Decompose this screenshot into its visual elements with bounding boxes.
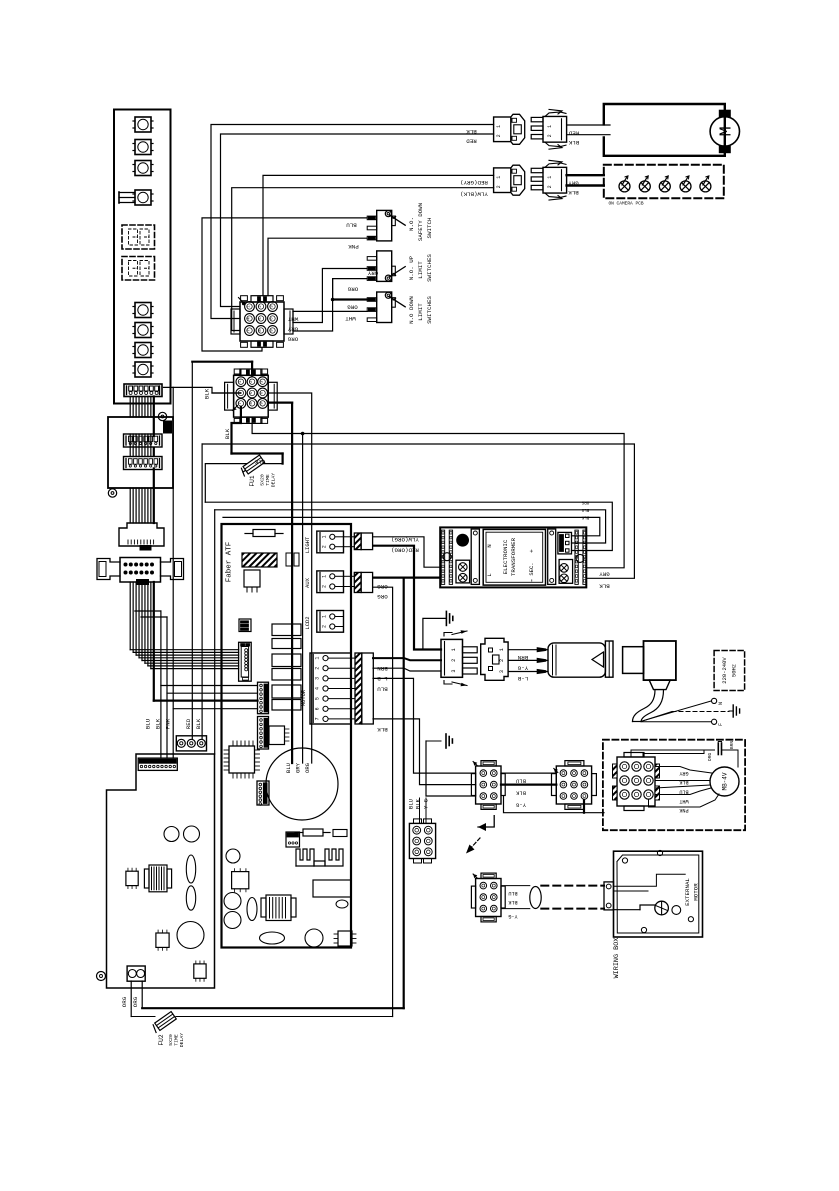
svg-text:WHT: WHT	[679, 798, 688, 804]
svg-text:BLK: BLK	[204, 388, 211, 399]
svg-text:2: 2	[451, 659, 457, 662]
svg-text:BLK: BLK	[155, 718, 162, 729]
svg-text:BLK: BLK	[414, 798, 421, 809]
svg-text:BLK: BLK	[466, 128, 477, 135]
svg-text:220-240V: 220-240V	[721, 657, 728, 684]
svg-text:L-B: L-B	[517, 675, 528, 682]
svg-text:7: 7	[248, 329, 252, 331]
svg-text:PNK: PNK	[678, 807, 688, 813]
svg-text:BRN: BRN	[517, 654, 528, 661]
svg-text:AUX: AUX	[304, 577, 311, 588]
svg-text:RED: RED	[568, 130, 579, 137]
svg-text:-: -	[528, 578, 537, 583]
svg-text:7: 7	[239, 402, 243, 404]
svg-text:FU1: FU1	[249, 475, 256, 486]
svg-text:1: 1	[321, 575, 327, 578]
svg-text:BLK: BLK	[224, 428, 231, 439]
svg-text:L: L	[486, 573, 493, 576]
svg-text:ORG: ORG	[581, 499, 589, 503]
svg-text:BLK: BLK	[195, 718, 202, 729]
svg-text:Y-G: Y-G	[517, 664, 528, 671]
svg-text:1: 1	[321, 615, 327, 618]
svg-text:5X20: 5X20	[260, 474, 266, 486]
svg-text:Y-G: Y-G	[516, 802, 526, 809]
svg-text:PNK: PNK	[348, 243, 359, 250]
svg-text:ORG: ORG	[287, 336, 298, 343]
svg-text:L-B: L-B	[377, 675, 388, 682]
svg-text:2: 2	[321, 585, 327, 588]
svg-text:2: 2	[321, 625, 327, 628]
svg-text:4: 4	[315, 687, 321, 690]
svg-text:N: N	[718, 702, 724, 705]
svg-text:YLW(ORG): YLW(ORG)	[391, 536, 419, 543]
svg-text:1: 1	[315, 657, 321, 660]
svg-text:2: 2	[315, 667, 321, 670]
svg-text:BLU: BLU	[145, 718, 152, 729]
svg-text:5X20: 5X20	[168, 1034, 174, 1046]
svg-text:N.O DOWN: N.O DOWN	[408, 296, 415, 324]
svg-text:GRY: GRY	[367, 270, 378, 277]
svg-text:Faber ATF: Faber ATF	[226, 542, 234, 583]
svg-text:LCD2: LCD2	[304, 616, 311, 629]
svg-text:TIME: TIME	[174, 1034, 180, 1046]
svg-text:2: 2	[496, 134, 502, 137]
svg-text:1: 1	[547, 176, 553, 179]
svg-text:MOTOR: MOTOR	[693, 883, 700, 901]
svg-text:1: 1	[547, 125, 553, 128]
svg-text:1: 1	[496, 176, 502, 179]
svg-text:WIRING BOX: WIRING BOX	[613, 938, 621, 979]
svg-text:BLK: BLK	[581, 515, 589, 519]
svg-text:3: 3	[499, 670, 505, 673]
svg-text:ORG: ORG	[132, 996, 139, 1007]
svg-text:BLU: BLU	[581, 507, 589, 511]
svg-text:2: 2	[547, 185, 553, 188]
svg-text:BLK: BLK	[678, 779, 688, 785]
svg-text:ORG: ORG	[707, 753, 713, 762]
svg-text:F: F	[718, 723, 724, 726]
svg-text:SEC.: SEC.	[528, 562, 535, 575]
svg-text:6: 6	[315, 707, 321, 710]
svg-text:+: +	[528, 549, 535, 553]
svg-text:TRANSFORMER: TRANSFORMER	[510, 537, 517, 576]
svg-text:BLK: BLK	[377, 726, 388, 733]
svg-text:SAFETY DOWN: SAFETY DOWN	[417, 202, 424, 241]
svg-text:ORG: ORG	[377, 593, 388, 600]
svg-text:BLK: BLK	[254, 459, 265, 466]
svg-text:BLK: BLK	[568, 189, 579, 196]
svg-text:BLU: BLU	[679, 789, 688, 795]
svg-text:GRY: GRY	[599, 571, 610, 578]
svg-text:YLW(BLK): YLW(BLK)	[460, 190, 488, 197]
svg-text:BLU: BLU	[508, 890, 517, 896]
svg-text:LIMIT: LIMIT	[417, 303, 424, 321]
svg-text:ON CAMERA PCB: ON CAMERA PCB	[608, 201, 643, 207]
svg-text:DELAY: DELAY	[179, 1033, 185, 1048]
svg-text:WHT: WHT	[287, 316, 298, 323]
svg-text:SWITCH: SWITCH	[426, 217, 433, 238]
svg-text:1: 1	[321, 535, 327, 538]
svg-text:TIME: TIME	[265, 474, 271, 486]
svg-text:1: 1	[499, 648, 505, 651]
svg-text:BLU: BLU	[285, 763, 292, 773]
svg-text:BLU: BLU	[407, 799, 414, 809]
svg-text:N.O.: N.O.	[408, 217, 415, 231]
svg-text:3: 3	[451, 669, 457, 672]
svg-text:LIMIT: LIMIT	[417, 261, 424, 279]
svg-text:EXTERNAL: EXTERNAL	[684, 878, 691, 906]
svg-text:ORG: ORG	[377, 583, 388, 590]
svg-text:BLK: BLK	[599, 582, 610, 589]
svg-text:WHT: WHT	[345, 315, 356, 322]
svg-text:DELAY: DELAY	[271, 473, 277, 488]
svg-text:BLK: BLK	[568, 139, 579, 146]
svg-text:ORG: ORG	[347, 304, 358, 311]
svg-text:1: 1	[496, 125, 502, 128]
svg-text:Y-G: Y-G	[508, 913, 517, 919]
svg-text:SWITCHES: SWITCHES	[426, 254, 433, 282]
svg-text:ELECTRONIC: ELECTRONIC	[502, 539, 509, 574]
svg-text:SWITCHES: SWITCHES	[426, 296, 433, 324]
svg-text:N.O. UP: N.O. UP	[408, 255, 415, 280]
svg-text:BLU: BLU	[377, 686, 388, 693]
svg-text:7: 7	[315, 717, 321, 720]
svg-text:N: N	[486, 544, 493, 547]
svg-text:2: 2	[496, 185, 502, 188]
svg-text:MB-4V: MB-4V	[722, 772, 729, 790]
svg-text:2: 2	[547, 134, 553, 137]
svg-text:ORG: ORG	[304, 763, 311, 773]
svg-text:FU2: FU2	[158, 1034, 165, 1045]
svg-text:MOTOR: MOTOR	[300, 689, 307, 706]
svg-text:BRN: BRN	[377, 665, 388, 672]
svg-text:M: M	[717, 126, 736, 136]
svg-text:ORG: ORG	[347, 286, 358, 293]
svg-text:ORG: ORG	[121, 996, 128, 1007]
svg-text:RED: RED	[185, 718, 192, 729]
svg-text:BLK: BLK	[507, 899, 517, 905]
svg-text:RED(ORG): RED(ORG)	[391, 547, 419, 554]
svg-text:GRY: GRY	[678, 770, 688, 776]
svg-text:3: 3	[315, 677, 321, 680]
svg-text:1: 1	[451, 648, 457, 651]
svg-text:PNK: PNK	[165, 718, 172, 729]
svg-text:BLU: BLU	[516, 778, 526, 785]
svg-text:5: 5	[315, 697, 321, 700]
svg-text:GRY: GRY	[287, 326, 298, 333]
svg-text:2: 2	[499, 659, 505, 662]
svg-text:RED: RED	[466, 138, 477, 145]
svg-text:LIGHT: LIGHT	[304, 536, 311, 553]
svg-text:BRN: BRN	[729, 741, 735, 750]
svg-text:BLU: BLU	[346, 222, 357, 229]
svg-text:BLK: BLK	[515, 790, 526, 797]
svg-text:RED(GRY): RED(GRY)	[460, 179, 488, 186]
svg-text:GRY: GRY	[294, 762, 301, 773]
svg-text:2: 2	[321, 545, 327, 548]
svg-text:50Hz: 50Hz	[730, 664, 737, 677]
